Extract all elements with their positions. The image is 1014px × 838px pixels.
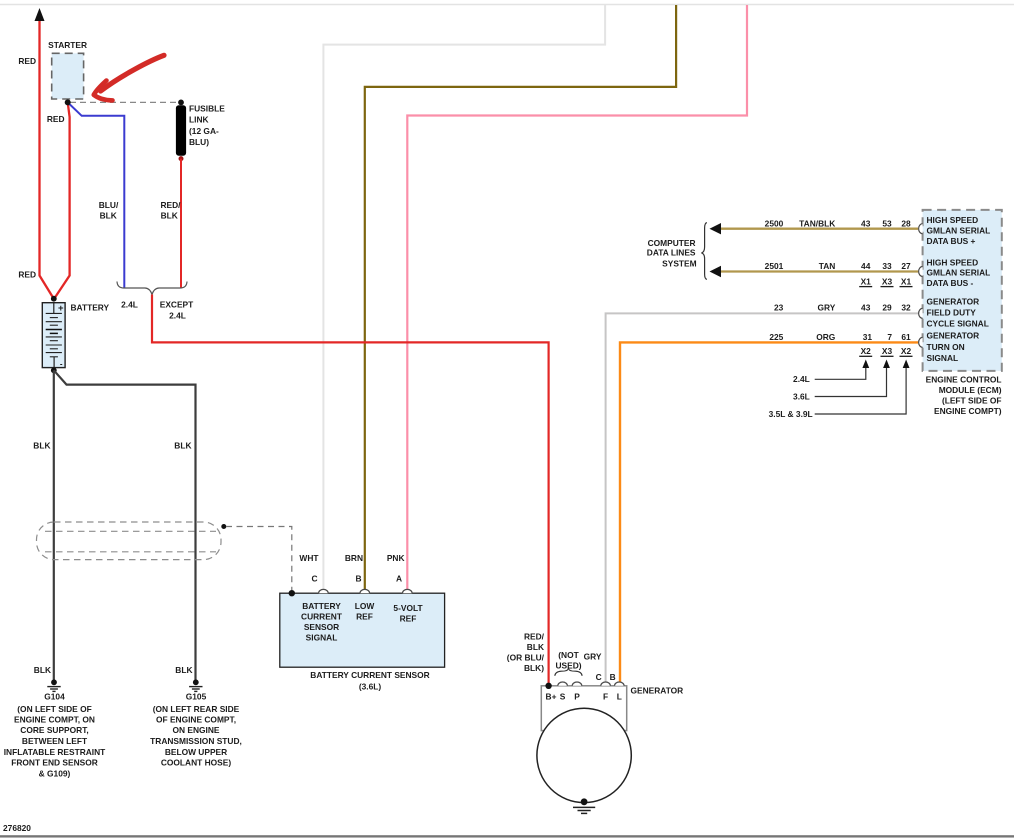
terminal bump B [360, 589, 370, 593]
wire BLK battery to G105 [54, 370, 196, 680]
wire RED starter to battery [55, 102, 69, 297]
svg-text:RED/: RED/ [160, 200, 181, 210]
svg-text:X2: X2 [861, 346, 872, 356]
svg-text:B+: B+ [546, 691, 557, 701]
svg-text:ENGINE COMPT): ENGINE COMPT) [934, 406, 1002, 416]
labels X1 X3 X1 [859, 276, 912, 286]
svg-text:HIGH SPEED: HIGH SPEED [927, 215, 979, 225]
svg-text:ORG: ORG [816, 332, 835, 342]
terminal bump A [403, 589, 413, 593]
svg-text:BATTERY: BATTERY [302, 601, 341, 611]
svg-text:COMPUTER: COMPUTER [648, 238, 696, 248]
svg-text:29: 29 [882, 303, 892, 313]
generator terminal bump S [558, 682, 568, 686]
shield loop (dashed harness) [37, 522, 222, 560]
wire TAN/BLK serial data + [716, 228, 918, 230]
svg-text:GENERATOR: GENERATOR [631, 685, 684, 695]
brace (NOT USED) over S P [555, 668, 582, 676]
brace computer data lines system [701, 223, 707, 280]
svg-text:A: A [396, 573, 402, 583]
svg-text:SIGNAL: SIGNAL [306, 633, 338, 643]
svg-text:REF: REF [400, 614, 417, 624]
svg-text:7: 7 [887, 332, 892, 342]
ground G105 [189, 679, 202, 691]
svg-text:G105: G105 [186, 692, 207, 702]
svg-text:2500: 2500 [765, 218, 784, 228]
wire ORG ECM to generator L [620, 342, 918, 682]
wire BLU/BLK starter to 2.4L brace [68, 102, 125, 287]
svg-text:BATTERY CURRENT SENSOR: BATTERY CURRENT SENSOR [310, 670, 429, 680]
svg-text:INFLATABLE RESTRAINT: INFLATABLE RESTRAINT [4, 747, 106, 757]
svg-text:276820: 276820 [3, 823, 31, 833]
svg-text:+: + [58, 303, 64, 314]
annotation arrow (hand-drawn red) [101, 55, 165, 91]
callout 2.4L [815, 366, 866, 379]
svg-text:DATA BUS +: DATA BUS + [927, 236, 976, 246]
battery [42, 303, 65, 369]
svg-text:ENGINE CONTROL: ENGINE CONTROL [926, 374, 1002, 384]
fusible link (12 GA BLU) [176, 105, 186, 155]
svg-text:GMLAN SERIAL: GMLAN SERIAL [927, 268, 991, 278]
svg-text:BLK: BLK [161, 210, 178, 220]
svg-text:RED/: RED/ [524, 632, 545, 642]
dashed drain wire to battery current sensor case [226, 527, 292, 591]
generator terminal bump F [601, 682, 611, 686]
svg-text:MODULE (ECM): MODULE (ECM) [939, 385, 1002, 395]
svg-text:SYSTEM: SYSTEM [662, 258, 696, 268]
ECM terminal bump (turn on) [919, 337, 923, 347]
svg-text:(3.6L): (3.6L) [359, 682, 382, 692]
svg-text:33: 33 [882, 261, 892, 271]
wire RED/BLK (OR BLU/BLK) brace to generator B+ [152, 295, 549, 685]
node battery negative [51, 367, 57, 373]
svg-text:BLU): BLU) [189, 137, 209, 147]
svg-text:53: 53 [882, 218, 892, 228]
starter S1 (dashed box) [52, 53, 84, 99]
svg-text:TAN/BLK: TAN/BLK [799, 218, 835, 228]
generator [541, 686, 626, 731]
svg-text:3.6L: 3.6L [793, 391, 810, 401]
svg-text:FRONT END SENSOR: FRONT END SENSOR [11, 758, 98, 768]
svg-text:WHT: WHT [299, 553, 319, 563]
svg-text:61: 61 [901, 332, 911, 342]
battery current sensor U2 [280, 593, 445, 667]
svg-text:CORE SUPPORT,: CORE SUPPORT, [20, 725, 88, 735]
svg-text:BLK: BLK [34, 665, 51, 675]
svg-text:CYCLE SIGNAL: CYCLE SIGNAL [927, 318, 989, 328]
node fusible link bottom [179, 156, 184, 161]
svg-text:43: 43 [861, 303, 871, 313]
arrowhead serial data + [710, 223, 722, 234]
node fusible link top [178, 100, 184, 106]
node sensor case (drain connection) [289, 590, 295, 596]
svg-text:44: 44 [861, 261, 871, 271]
wire GRY ECM to generator F [606, 313, 918, 682]
svg-text:31: 31 [863, 332, 873, 342]
svg-text:SENSOR: SENSOR [304, 622, 339, 632]
svg-text:HIGH SPEED: HIGH SPEED [927, 257, 979, 267]
svg-text:5-VOLT: 5-VOLT [393, 603, 423, 613]
wire RED/BLK fusible link to brace [180, 159, 182, 288]
generator terminal bump P [572, 682, 582, 686]
svg-text:X2: X2 [901, 346, 912, 356]
generator pin labels [546, 691, 622, 701]
svg-text:GMLAN SERIAL: GMLAN SERIAL [927, 226, 991, 236]
svg-text:& G109): & G109) [39, 768, 71, 778]
ground generator case [573, 798, 595, 813]
svg-text:BLK: BLK [527, 642, 544, 652]
svg-text:23: 23 [774, 303, 784, 313]
svg-text:COOLANT HOSE): COOLANT HOSE) [161, 758, 231, 768]
svg-text:ENGINE COMPT, ON: ENGINE COMPT, ON [14, 715, 95, 725]
svg-text:F: F [603, 691, 608, 701]
svg-text:(OR BLU/: (OR BLU/ [507, 653, 545, 663]
label ENGINE CONTROL MODULE (ECM) [926, 374, 1002, 416]
svg-text:TAN: TAN [819, 261, 836, 271]
svg-text:-: - [60, 360, 63, 369]
svg-text:REF: REF [356, 611, 373, 621]
arrowhead RED feed (to top) [35, 8, 45, 21]
wire WHT (top run to battery current sensor C) [323, 5, 605, 589]
label COMPUTER DATA LINES SYSTEM [647, 238, 697, 268]
ground G104 [47, 679, 60, 691]
svg-text:GRY: GRY [817, 303, 835, 313]
svg-text:L: L [617, 691, 622, 701]
svg-text:G104: G104 [44, 692, 65, 702]
svg-text:B: B [610, 672, 616, 682]
svg-text:BLU/: BLU/ [99, 200, 119, 210]
ECM terminal bump (serial data -) [919, 267, 923, 277]
svg-text:2.4L: 2.4L [793, 374, 810, 384]
svg-text:C: C [596, 672, 602, 682]
svg-text:2501: 2501 [765, 261, 784, 271]
label G105 callout [150, 692, 242, 768]
ECM signal labels [927, 215, 991, 363]
svg-text:RED: RED [18, 56, 36, 66]
svg-text:BETWEEN LEFT: BETWEEN LEFT [22, 736, 88, 746]
svg-text:(ON LEFT SIDE OF: (ON LEFT SIDE OF [17, 704, 91, 714]
svg-text:TURN ON: TURN ON [927, 342, 965, 352]
svg-text:B: B [355, 573, 361, 583]
node starter B+ junction [65, 99, 71, 105]
svg-text:DATA LINES: DATA LINES [647, 247, 696, 257]
wire PNK (top run to battery current sensor A) [407, 5, 747, 589]
svg-text:LOW: LOW [355, 601, 375, 611]
svg-text:ON ENGINE: ON ENGINE [173, 725, 220, 735]
svg-text:PNK: PNK [387, 553, 405, 563]
svg-text:SIGNAL: SIGNAL [927, 353, 959, 363]
svg-text:BLK: BLK [33, 441, 50, 451]
svg-text:FIELD DUTY: FIELD DUTY [927, 308, 977, 318]
svg-text:GENERATOR: GENERATOR [927, 331, 980, 341]
svg-text:OF ENGINE COMPT,: OF ENGINE COMPT, [156, 715, 236, 725]
labels 2501 TAN 44 33 27 [765, 261, 911, 271]
callout 3.6L [815, 366, 887, 397]
svg-text:TRANSMISSION STUD,: TRANSMISSION STUD, [150, 736, 242, 746]
svg-text:32: 32 [901, 303, 911, 313]
svg-text:27: 27 [901, 261, 911, 271]
svg-text:2.4L: 2.4L [169, 311, 186, 321]
sensor pin function labels [301, 601, 423, 643]
svg-text:STARTER: STARTER [48, 40, 87, 50]
svg-text:LINK: LINK [189, 114, 209, 124]
svg-text:28: 28 [901, 218, 911, 228]
svg-text:X3: X3 [882, 346, 893, 356]
svg-text:225: 225 [769, 332, 783, 342]
ECM terminal bump (field duty) [919, 308, 923, 318]
svg-text:GRY: GRY [584, 652, 602, 662]
svg-text:43: 43 [861, 218, 871, 228]
svg-text:X1: X1 [861, 276, 872, 286]
svg-text:DATA BUS -: DATA BUS - [927, 278, 974, 288]
svg-text:2.4L: 2.4L [121, 300, 138, 310]
wire BRN (top run to battery current sensor B) [365, 5, 676, 589]
wire BLK battery to G104 [53, 370, 55, 680]
arrowhead serial data - [710, 266, 722, 277]
svg-text:BELOW UPPER: BELOW UPPER [165, 747, 227, 757]
svg-text:P: P [574, 691, 580, 701]
labels 2500 TAN/BLK 43 53 28 [765, 218, 911, 228]
svg-text:CURRENT: CURRENT [301, 611, 343, 621]
svg-text:EXCEPT: EXCEPT [160, 300, 194, 310]
labels X2 X3 X2 [859, 346, 912, 356]
svg-text:RED: RED [47, 114, 65, 124]
svg-text:BATTERY: BATTERY [71, 303, 110, 313]
svg-text:USED): USED) [555, 661, 581, 671]
wire RED battery positive feed (left vertical) [40, 16, 53, 297]
svg-text:X1: X1 [901, 276, 912, 286]
svg-text:(12 GA-: (12 GA- [189, 126, 219, 136]
svg-text:BLK: BLK [100, 210, 117, 220]
svg-text:C: C [311, 573, 317, 583]
svg-text:FUSIBLE: FUSIBLE [189, 103, 225, 113]
svg-text:BLK: BLK [175, 665, 192, 675]
generator terminal bump L [615, 682, 625, 686]
svg-text:X3: X3 [882, 276, 893, 286]
bottom rule [0, 835, 1014, 837]
brace 2.4L / EXCEPT 2.4L [117, 282, 187, 295]
svg-text:(LEFT SIDE OF: (LEFT SIDE OF [942, 395, 1002, 405]
svg-text:(ON LEFT REAR SIDE: (ON LEFT REAR SIDE [153, 704, 240, 714]
node shield drain [221, 524, 226, 529]
dashed wire starter to fusible link [70, 101, 178, 103]
callout 3.5L & 3.9L [815, 366, 906, 414]
svg-text:S: S [560, 691, 566, 701]
svg-text:RED: RED [18, 270, 36, 280]
ECM terminal bump (serial data +) [919, 224, 923, 234]
svg-text:(NOT: (NOT [558, 650, 579, 660]
labels 23 GRY 43 29 32 [774, 303, 911, 313]
svg-text:BRN: BRN [345, 553, 363, 563]
svg-text:GENERATOR: GENERATOR [927, 297, 980, 307]
ECM U1 (dashed box) [923, 210, 1002, 371]
svg-text:BLK): BLK) [524, 663, 544, 673]
node battery positive [51, 296, 57, 302]
node generator B+ [545, 683, 551, 689]
top rule [0, 4, 1014, 6]
svg-text:BLK: BLK [174, 441, 191, 451]
labels 225 ORG 31 7 61 [769, 332, 911, 342]
wire TAN serial data - [716, 270, 918, 272]
svg-text:3.5L & 3.9L: 3.5L & 3.9L [769, 409, 813, 419]
generator body circle [537, 708, 631, 802]
label G104 callout [4, 692, 106, 779]
terminal bump C [319, 589, 329, 593]
